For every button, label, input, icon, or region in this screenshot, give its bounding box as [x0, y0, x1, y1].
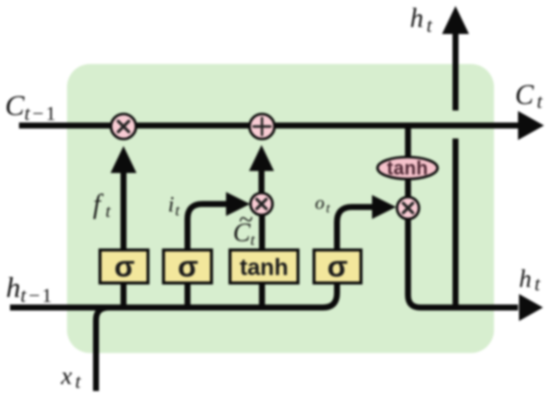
svg-text:Ct−1: Ct−1: [5, 90, 56, 125]
svg-text:~: ~: [239, 205, 253, 234]
svg-text:ht: ht: [519, 266, 541, 296]
svg-text:σ: σ: [327, 251, 348, 284]
svg-text:ht−1: ht−1: [6, 272, 52, 307]
svg-text:tanh: tanh: [387, 159, 428, 180]
svg-text:ht: ht: [410, 3, 433, 37]
svg-text:tanh: tanh: [240, 254, 289, 280]
svg-text:σ: σ: [114, 251, 135, 284]
svg-text:xt: xt: [60, 363, 81, 393]
svg-text:Ct: Ct: [515, 80, 543, 113]
svg-text:σ: σ: [178, 251, 199, 284]
